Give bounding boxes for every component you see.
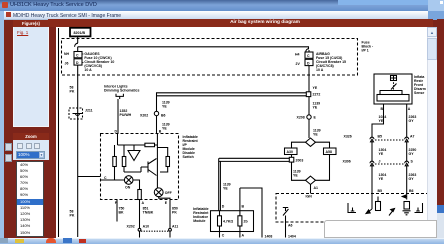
bracket symbol right [415, 203, 423, 213]
svg-text:GY: GY [409, 177, 415, 181]
svg-text:X202: X202 [140, 114, 148, 118]
svg-text:J: J [379, 160, 381, 164]
fuse F2 AIRBAG terminal D [305, 59, 313, 65]
lamp ON wiring [101, 180, 140, 190]
arrow ground left [366, 209, 372, 214]
indicator lamp ON [124, 176, 133, 185]
svg-text:ON: ON [125, 186, 131, 190]
dashed harness box bottom right [276, 194, 428, 223]
svg-text:B6: B6 [161, 114, 166, 118]
wire 1139 into module pin B [156, 116, 158, 134]
connector hook right [306, 49, 309, 52]
label SIR I/P box [70, 28, 91, 37]
fuse F2 AIRBAG terminal C [305, 52, 313, 58]
svg-text:E: E [314, 116, 317, 120]
sensor wire A 2263 GY [406, 104, 408, 138]
svg-text:YE: YE [313, 133, 318, 137]
sensor mass symbol [391, 76, 397, 81]
wire 851 below module [139, 200, 141, 230]
branch wire to disable switch pin C [78, 176, 101, 178]
svg-text:A10: A10 [143, 225, 149, 229]
wire below A58 [316, 155, 330, 181]
svg-text:YE: YE [379, 152, 384, 156]
right maroon column [437, 19, 444, 205]
svg-text:GY: GY [409, 152, 415, 156]
arrow on wire A at harness [402, 195, 407, 198]
main window title bar [0, 0, 444, 11]
sensor switch [393, 77, 395, 90]
interior lights tag bracket [116, 94, 123, 99]
svg-text:I/P 1: I/P 1 [362, 49, 369, 53]
resistor R5 [138, 190, 142, 200]
element E1 [376, 202, 381, 211]
resistor R7 2b [238, 216, 242, 226]
wires to X306 [372, 142, 407, 162]
J211 in-line connector dashed box [69, 108, 83, 119]
off-page pin A [138, 228, 141, 231]
combo box [16, 151, 45, 159]
disable switch module dashed box [101, 134, 179, 200]
branch to A58 [316, 142, 330, 148]
dropdown list [16, 161, 44, 237]
svg-text:Switch: Switch [183, 155, 194, 159]
element E2 [404, 202, 410, 210]
wire 850 PK below module [169, 200, 171, 230]
svg-text:A11: A11 [172, 225, 178, 229]
svg-text:J6: J6 [65, 62, 69, 66]
twisted pair bus upper [157, 93, 309, 111]
svg-text:X202: X202 [127, 225, 135, 229]
resistor R4 [122, 157, 126, 167]
ignition switch symbol [283, 208, 289, 216]
page border [58, 28, 60, 237]
wire below fuse F1 (58 PK) [77, 65, 79, 237]
svg-text:YE: YE [313, 86, 318, 90]
svg-text:H4: H4 [295, 53, 300, 57]
svg-text:IGN: IGN [306, 195, 313, 199]
svg-text:YE: YE [162, 105, 167, 109]
svg-text:2b: 2b [244, 220, 248, 224]
svg-text:A: A [408, 107, 411, 111]
connector X208 circle [307, 115, 311, 119]
connector X202 circle [154, 111, 158, 115]
svg-text:10 A: 10 A [84, 68, 92, 72]
sidebar zoom panel [13, 133, 49, 160]
resistor R2 horizontal [145, 143, 155, 147]
svg-text:Dimming Schematics: Dimming Schematics [104, 89, 139, 93]
scrollbar [427, 27, 438, 238]
wire pin B through module [239, 188, 241, 238]
svg-text:X326: X326 [344, 135, 352, 139]
fuse block dashed box [62, 39, 358, 76]
resistor R6 [166, 157, 170, 167]
svg-text:YE: YE [223, 187, 228, 191]
indicator module box [211, 211, 254, 232]
svg-text:A1: A1 [314, 186, 319, 190]
svg-text:YE: YE [313, 106, 318, 110]
svg-text:C: C [104, 176, 107, 180]
taskbar [0, 238, 444, 244]
sensor wire B 1034 YE [372, 104, 384, 138]
wire 750 BK below module [116, 200, 118, 222]
svg-text:B6: B6 [409, 189, 414, 193]
pin A wire [139, 199, 141, 201]
internal top rail [118, 134, 158, 146]
svg-text:Module: Module [193, 219, 205, 223]
svg-text:C: C [222, 234, 225, 238]
svg-text:YE: YE [379, 177, 384, 181]
svg-text:2V: 2V [296, 62, 301, 66]
svg-text:2272: 2272 [313, 93, 321, 97]
sensor plate [377, 95, 409, 102]
svg-text:A58: A58 [326, 150, 332, 154]
inner window title bar [4, 11, 428, 20]
svg-text:D: D [115, 130, 118, 134]
connector dashes X202 bottom [141, 230, 169, 232]
twisted pair bus lower [219, 158, 290, 210]
svg-text:PK: PK [70, 214, 75, 218]
svg-text:PK: PK [70, 90, 75, 94]
svg-text:S: S [411, 160, 414, 164]
pin E wire [159, 197, 170, 200]
ground G1 [403, 211, 411, 215]
branch to A30 [292, 142, 306, 148]
sensor bracket [380, 91, 402, 95]
arrow symbol middle [389, 209, 395, 216]
svg-text:A: A [142, 201, 145, 205]
svg-text:A6: A6 [288, 224, 293, 228]
splice diamond S2 [306, 138, 316, 146]
small icons on maroon edge [5, 143, 12, 151]
svg-text:8201/B: 8201/B [74, 31, 86, 35]
connector hook C100 left [75, 43, 78, 47]
svg-text:Sense: Sense [414, 91, 424, 95]
svg-text:10 A: 10 A [316, 68, 324, 72]
svg-text:4.7KΩ: 4.7KΩ [223, 220, 233, 224]
svg-text:A: A [242, 234, 245, 238]
wire 1352 PU/WH [117, 99, 119, 134]
wire 1404 [285, 216, 287, 238]
resistor R3 [113, 157, 117, 167]
svg-text:OFF: OFF [165, 191, 173, 195]
svg-text:YE: YE [379, 119, 384, 123]
svg-text:B: B [242, 205, 245, 209]
transistor Q1 [124, 159, 157, 176]
sidebar figure panel [13, 20, 49, 127]
front sensor box [374, 74, 412, 104]
svg-text:X208: X208 [297, 116, 305, 120]
svg-text:X306: X306 [343, 160, 351, 164]
svg-text:A7: A7 [410, 135, 415, 139]
white popup over bottom right [324, 220, 437, 238]
svg-text:D: D [222, 205, 225, 209]
fuse F1 GAUGES terminal C [74, 52, 82, 58]
svg-text:TN/BK: TN/BK [143, 211, 154, 215]
off-page pin E [169, 228, 172, 231]
wire below A30 [292, 155, 306, 181]
svg-text:B5: B5 [378, 189, 383, 193]
svg-text:A30: A30 [287, 150, 293, 154]
fuse F1 GAUGES terminal D [74, 59, 82, 65]
svg-text:BK: BK [119, 211, 125, 215]
svg-text:J211: J211 [85, 109, 93, 113]
svg-text:PU/WH: PU/WH [120, 113, 132, 117]
wires into harness box [372, 166, 407, 209]
wire 1408 feed [240, 188, 262, 238]
resistor R1 4.7k [218, 216, 222, 226]
splice block S1 [306, 92, 311, 97]
svg-text:GY: GY [409, 119, 415, 123]
bracket symbol left [348, 203, 356, 213]
wire A1 IGN [310, 185, 312, 194]
terminal box A30 [285, 148, 298, 155]
left desktop edge strip [0, 0, 4, 243]
splice diamond S4 [306, 176, 316, 184]
terminal box A58 [324, 148, 337, 155]
splice block S3 [289, 157, 294, 162]
svg-text:PK: PK [172, 211, 177, 215]
connector pair X326 [370, 137, 409, 142]
pin B wire through module [156, 134, 158, 189]
wire 1139 YE below fuse F2 [308, 66, 310, 138]
wire pin D into module [219, 211, 221, 238]
svg-text:B5: B5 [378, 135, 383, 139]
svg-text:2003: 2003 [296, 159, 304, 163]
wire from SIR label to hook [77, 37, 79, 44]
airbag diagram header bar [48, 19, 433, 27]
connector pair X306 [370, 161, 409, 166]
svg-text:YE: YE [293, 174, 298, 178]
J211 connector symbol [73, 114, 83, 116]
bus wire battery feed [78, 47, 309, 52]
indicator lamp OFF [154, 188, 163, 197]
svg-text:YE: YE [162, 127, 167, 131]
white schematic page [56, 27, 437, 238]
svg-text:E: E [165, 201, 168, 205]
svg-text:NH: NH [64, 52, 70, 56]
op-amp U1 [128, 145, 140, 161]
